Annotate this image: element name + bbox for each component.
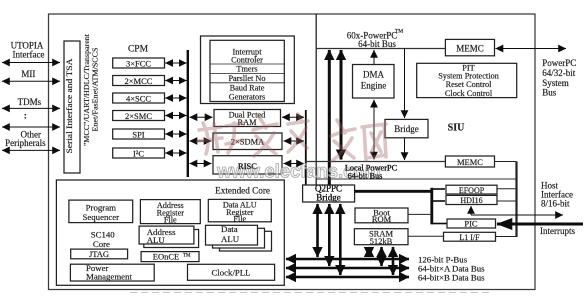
block Address Register File	[140, 200, 200, 225]
wire SRAM to L1IF	[408, 235, 444, 237]
svg-text:Program: Program	[86, 202, 116, 212]
wire DMA up arrow	[373, 50, 375, 65]
svg-text:SPI: SPI	[132, 130, 144, 140]
block EFOOP	[446, 185, 497, 195]
block Data ALU Register File	[208, 199, 271, 223]
wire Other Peripherals arrow 1	[2, 126, 60, 128]
wire FCC-bus arrow	[165, 62, 186, 64]
svg-text:Reset Control: Reset Control	[446, 80, 493, 89]
block 3xFCC	[113, 58, 165, 69]
block MEMC upper	[445, 39, 494, 55]
wire bus-SDMA arrow	[190, 140, 212, 142]
svg-text:System: System	[542, 78, 569, 88]
block HDI16	[446, 195, 497, 205]
wire SPI-bus arrow	[165, 133, 186, 135]
svg-text:3×FCC: 3×FCC	[126, 59, 151, 69]
wire SRAM to XB bus arrow	[392, 247, 395, 275]
wire Interrupts arrow	[497, 223, 583, 226]
svg-text:ALU: ALU	[147, 235, 166, 245]
block 2xMCC	[113, 76, 165, 87]
svg-text:MEMC: MEMC	[456, 44, 484, 54]
wire SMC-bus arrow	[165, 115, 186, 117]
svg-text:Bus: Bus	[542, 88, 557, 98]
block Bridge (SIU)	[385, 119, 428, 137]
svg-text:Generators: Generators	[229, 92, 265, 101]
svg-text:RISC: RISC	[238, 161, 257, 171]
block Extended Core	[56, 180, 284, 285]
svg-text:File: File	[164, 216, 177, 225]
scan artifact bottom line	[130, 292, 490, 294]
svg-text:Core: Core	[93, 239, 110, 249]
block Serial Interface and TSA	[64, 41, 80, 173]
svg-text:Clock Control: Clock Control	[445, 89, 493, 98]
wire TDMs arrow	[2, 107, 60, 109]
wire DMA down arrow	[373, 100, 375, 160]
svg-text:Tmers: Tmers	[236, 65, 257, 74]
wire MCC-bus arrow	[165, 80, 186, 82]
svg-text:"MCC"/UART/HDLC/Transparent: "MCC"/UART/HDLC/Transparent	[82, 33, 91, 146]
svg-text:Interrupts: Interrupts	[540, 226, 575, 236]
svg-text:Management: Management	[86, 271, 132, 281]
wire 60x bus to SIU bridge	[404, 49, 406, 119]
wire I2C-bus arrow	[165, 152, 186, 154]
chip outer frame	[49, 14, 536, 290]
block Clock/PLL	[188, 264, 275, 280]
svg-text:CPM: CPM	[128, 44, 149, 54]
wire bridge to XA bus arrow	[328, 204, 331, 266]
svg-text:8/16-bit: 8/16-bit	[541, 199, 570, 209]
wire EFOOP right connector	[497, 188, 517, 190]
svg-text:DMA: DMA	[363, 70, 385, 80]
wire RAM-right arrow	[282, 116, 304, 118]
wire vertical line to Q2PPC bridge (peripheral side)	[305, 110, 307, 185]
block SPI	[113, 129, 165, 140]
wire MEMC right to vertical	[495, 161, 517, 163]
block 2xSDMA	[213, 133, 282, 150]
bus 126-bit P-Bus	[286, 258, 409, 261]
block Power Management	[70, 263, 154, 282]
wire SRAM to XA bus arrow	[380, 247, 383, 266]
wire UTOPIA arrow	[2, 62, 60, 64]
wire thick arrow 60x bus to Q2PPC bridge	[328, 50, 331, 185]
wire host interface arrow	[470, 206, 472, 215]
svg-text:L1 I/F: L1 I/F	[459, 233, 480, 242]
wire L1IF right to vertical	[496, 236, 517, 238]
svg-text:HDI16: HDI16	[460, 196, 482, 205]
local PowerPC bus line	[305, 161, 445, 163]
wire RISC-right arrow	[284, 163, 305, 165]
block JTAG	[71, 249, 128, 259]
svg-text:MII: MII	[21, 69, 35, 79]
wire thick bridge to peripherals	[355, 190, 432, 193]
block Program Sequencer	[69, 200, 133, 223]
svg-text:ROM: ROM	[372, 214, 392, 224]
block 4xSCC	[113, 93, 165, 104]
ellipsis dots	[24, 114, 26, 119]
svg-text:Controler: Controler	[231, 56, 263, 65]
svg-text:Baud Rate: Baud Rate	[230, 84, 265, 93]
svg-text:TDMs: TDMs	[18, 97, 42, 107]
SIU bottom boundary line	[316, 178, 516, 180]
svg-text:EFOOP: EFOOP	[459, 186, 485, 195]
svg-text:MEMC: MEMC	[457, 157, 483, 167]
block PIC	[447, 218, 496, 228]
svg-text:TM: TM	[183, 253, 191, 258]
wire HDI16 right connector	[497, 200, 517, 202]
svg-text:TM: TM	[395, 29, 403, 35]
svg-text:SIU: SIU	[448, 123, 465, 134]
block MEMC lower	[445, 156, 494, 167]
wire branch to HDI16	[432, 200, 445, 202]
block Data ALU stack	[206, 224, 272, 251]
svg-text:Clock/PLL: Clock/PLL	[211, 268, 250, 278]
label bus names	[418, 255, 485, 283]
svg-text:Interface: Interface	[13, 50, 45, 60]
wire bridge to P-bus arrow	[316, 204, 319, 257]
wire thick vertical connector 432	[430, 188, 433, 225]
svg-text:2×SMC: 2×SMC	[125, 111, 152, 121]
label MCC/UART/HDLC rotated text	[82, 33, 100, 146]
svg-text:Enet/FasEnet/ATM/SCCS: Enet/FasEnet/ATM/SCCS	[91, 48, 100, 132]
block Interrupt Controller / Timers / Parallel IO / Baud Rate Generators	[201, 36, 295, 104]
block PIT System Protection Reset Control Clock Control	[417, 63, 517, 98]
wire bridge to XB bus arrow	[339, 204, 342, 275]
wire Other Peripherals arrow 2	[2, 149, 60, 151]
block SRAM 512kB	[354, 229, 408, 246]
svg-text:Parsllet No: Parsllet No	[228, 74, 265, 83]
block L1 I/F	[444, 232, 496, 242]
block Q2PPC Bridge	[303, 184, 355, 203]
wire SRAM to P-bus arrow	[368, 247, 371, 257]
svg-text:Engine: Engine	[361, 81, 387, 91]
svg-text:512kB: 512kB	[370, 236, 393, 246]
wire branch to PIC	[432, 223, 447, 225]
svg-text:SC140: SC140	[91, 229, 116, 239]
label 60x-PowerPC 64-bit Bus	[347, 29, 403, 50]
wire CPM/SIU divider line	[315, 14, 317, 185]
block Boot ROM	[355, 207, 408, 224]
block RISC	[213, 156, 282, 174]
wire MII arrow	[2, 80, 60, 82]
svg-text:File: File	[233, 214, 246, 223]
svg-text:PowerPC: PowerPC	[542, 58, 576, 68]
svg-text:4×SCC: 4×SCC	[126, 94, 151, 104]
label PowerPC 64/32-bit System Bus	[542, 58, 576, 98]
label Local PowerPC 64-bit Bus	[345, 164, 398, 181]
block 2xSMC	[113, 111, 165, 122]
bus 64-bit XB Data Bus	[286, 276, 409, 279]
block Address ALU	[139, 226, 199, 247]
wire SCC-bus arrow	[165, 97, 186, 99]
svg-text:I²C: I²C	[133, 149, 144, 159]
svg-text:Bridge: Bridge	[316, 192, 341, 202]
60x PowerPC bus line	[316, 48, 445, 50]
block I2C	[113, 148, 165, 159]
wire Boot ROM to connector	[408, 213, 432, 215]
block Dual-Ported RAM	[214, 110, 281, 128]
svg-text:64/32-bit: 64/32-bit	[542, 68, 575, 78]
svg-text:64-bit Bus: 64-bit Bus	[348, 172, 383, 181]
svg-text:Extended Core: Extended Core	[215, 186, 270, 196]
svg-text:Bridge: Bridge	[394, 124, 419, 134]
svg-text:64-bit Bus: 64-bit Bus	[358, 39, 396, 49]
svg-text:JTAG: JTAG	[89, 249, 109, 259]
node UTOPIA Interface label	[11, 40, 45, 59]
block DMA Engine	[353, 65, 395, 99]
wire thick arrow 60x bus to local bus	[340, 50, 343, 160]
bus 64-bit XA Data Bus	[286, 267, 409, 270]
svg-text:Sequencer: Sequencer	[82, 212, 119, 222]
wire bus-RAM arrow	[190, 116, 213, 118]
svg-text:Data: Data	[221, 224, 238, 234]
wire bridge to local bus	[404, 138, 406, 160]
wire system bus arrow	[496, 48, 567, 50]
svg-text:PIC: PIC	[464, 218, 478, 228]
CPM peripheral bus vertical line	[187, 50, 189, 177]
wire branch to EFOOP	[432, 188, 445, 190]
wire SDMA-right arrow	[284, 140, 305, 142]
wire bus-RISC arrow	[190, 163, 212, 165]
svg-text:Serial Interface and TSA: Serial Interface and TSA	[65, 59, 74, 154]
label Host Interface 8/16-bit	[541, 181, 573, 209]
svg-text:Peripherals: Peripherals	[5, 138, 46, 148]
block EOnCE	[141, 252, 199, 262]
label Local PowerPC redraw over watermark	[238, 161, 398, 203]
svg-text:64-bit×B Data Bus: 64-bit×B Data Bus	[418, 273, 485, 283]
svg-text:EOnCE: EOnCE	[153, 252, 179, 262]
svg-text:ALU: ALU	[221, 234, 240, 244]
watermark red chinese characters	[198, 114, 386, 161]
svg-text:2×MCC: 2×MCC	[125, 76, 153, 86]
node Other Peripherals label	[5, 130, 46, 149]
wire right vertical connector	[515, 162, 517, 238]
